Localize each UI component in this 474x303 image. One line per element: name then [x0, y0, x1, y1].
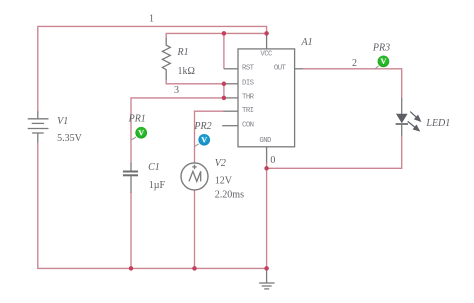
svg-text:12V: 12V	[215, 176, 233, 187]
svg-text:0: 0	[270, 155, 275, 166]
svg-text:1µF: 1µF	[149, 180, 166, 191]
svg-text:V: V	[380, 56, 387, 66]
svg-text:RST: RST	[242, 64, 255, 72]
svg-text:PR1: PR1	[128, 113, 146, 124]
svg-text:GND: GND	[259, 137, 272, 145]
svg-text:THR: THR	[242, 94, 255, 102]
svg-text:1kΩ: 1kΩ	[178, 66, 195, 77]
svg-text:OUT: OUT	[274, 64, 287, 72]
svg-text:C1: C1	[148, 162, 160, 173]
svg-text:2: 2	[352, 58, 357, 69]
svg-text:5.35V: 5.35V	[57, 133, 82, 144]
svg-text:3: 3	[174, 85, 179, 96]
svg-text:R1: R1	[177, 47, 189, 58]
svg-text:CON: CON	[242, 121, 254, 129]
svg-text:V1: V1	[57, 116, 68, 127]
svg-text:V: V	[138, 127, 145, 137]
svg-text:1: 1	[149, 13, 154, 24]
svg-text:V: V	[201, 135, 208, 145]
svg-text:V2: V2	[215, 158, 226, 169]
svg-text:A1: A1	[301, 37, 313, 48]
svg-text:PR2: PR2	[193, 121, 211, 132]
svg-text:LED1: LED1	[425, 118, 450, 129]
svg-text:PR3: PR3	[372, 42, 390, 53]
svg-text:TRI: TRI	[242, 107, 254, 115]
svg-text:DIS: DIS	[242, 79, 255, 87]
svg-text:2.20ms: 2.20ms	[215, 189, 244, 200]
svg-text:VCC: VCC	[260, 51, 273, 59]
